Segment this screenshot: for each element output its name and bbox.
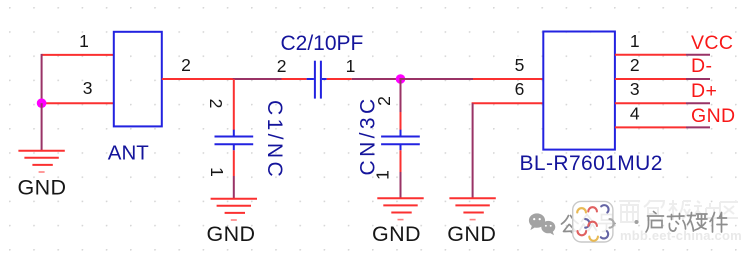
node junction at C3 tap	[396, 74, 406, 84]
svg-text:GND: GND	[372, 222, 421, 246]
ground symbol GND4	[449, 198, 495, 219]
svg-text:1: 1	[207, 167, 227, 177]
svg-text:3: 3	[630, 79, 640, 99]
ground symbol GND2	[211, 199, 257, 220]
svg-text:GND: GND	[207, 222, 256, 246]
svg-text:CN/3C: CN/3C	[357, 95, 380, 175]
svg-text:C2/10PF: C2/10PF	[281, 32, 364, 55]
svg-text:1: 1	[630, 31, 640, 51]
svg-text:2: 2	[630, 55, 640, 75]
node junction at ANT net	[37, 98, 47, 108]
wire C3 top lead purple	[400, 78, 402, 112]
wire ANT pin1 net segment	[42, 54, 114, 56]
wire junction-to-ground	[41, 103, 43, 151]
wire U1 pin4 red	[615, 126, 686, 128]
capacitor C1	[215, 130, 254, 151]
wire C2 pin1 to junction red part	[327, 78, 352, 80]
watermark faint text 面包板社区	[619, 200, 738, 222]
wire U1 pin3 stub purple	[686, 102, 710, 104]
wire junction to pin5 segment (purple)	[401, 78, 474, 80]
svg-text:5: 5	[515, 55, 525, 75]
watermark text 启芯硬件	[646, 212, 727, 233]
wire ANT pin3 net segment	[42, 102, 114, 104]
capacitor C2	[307, 61, 327, 99]
wire C1 bottom lead purple	[233, 176, 235, 198]
svg-text:D+: D+	[691, 80, 717, 102]
wire U1 pin4 stub purple	[686, 126, 710, 128]
wire C2 pin1 to junction purple part	[352, 78, 401, 80]
wire ANT pin2 to C1 tap	[162, 78, 235, 80]
wire vertical pin1-to-junction	[41, 54, 43, 103]
wire U1 pin2 stub purple	[686, 78, 710, 80]
ground symbol GND1	[18, 151, 64, 172]
svg-text:2: 2	[277, 56, 287, 76]
svg-text:mbb.eet-china.com: mbb.eet-china.com	[620, 228, 742, 243]
wire C1 bottom lead red	[233, 150, 235, 176]
svg-text:2: 2	[181, 55, 191, 75]
watermark logo square	[573, 201, 614, 242]
wire mid to C2 pin2	[282, 78, 307, 80]
wire BL pin6 horizontal	[472, 102, 544, 104]
wire U1 pin1 stub purple	[686, 54, 710, 56]
svg-text:ANT: ANT	[108, 142, 149, 165]
capacitor C3	[381, 130, 420, 151]
wire C1 top lead	[233, 79, 235, 130]
watermark text 公众号	[562, 215, 616, 233]
svg-text:4: 4	[630, 103, 640, 123]
svg-text:3: 3	[83, 78, 93, 98]
watermark separator dot	[635, 220, 639, 224]
wire pin6 to ground (purple)	[472, 103, 474, 198]
wire C3 bottom lead red	[400, 150, 402, 172]
wire C3 top lead red	[400, 112, 402, 130]
wire U1 pin1 red	[615, 54, 686, 56]
wire U1 pin2 red	[615, 78, 686, 80]
svg-text:VCC: VCC	[691, 32, 733, 54]
IC U1 BL-R7601MU2 body	[543, 32, 615, 150]
wire C1 tap to mid (purple)	[233, 78, 282, 80]
svg-text:1: 1	[346, 56, 356, 76]
svg-text:GND: GND	[691, 105, 736, 127]
svg-text:C1/NC: C1/NC	[263, 100, 286, 180]
svg-text:GND: GND	[447, 222, 496, 246]
svg-text:GND: GND	[18, 176, 67, 200]
wire to BL pin 5	[473, 78, 543, 80]
svg-text:6: 6	[515, 79, 525, 99]
svg-text:BL-R7601MU2: BL-R7601MU2	[520, 152, 663, 175]
svg-text:D-: D-	[691, 55, 712, 77]
connector ANT body	[114, 32, 162, 127]
wire C3 bottom lead purple	[400, 172, 402, 198]
ground symbol GND3	[377, 198, 423, 219]
svg-text:2: 2	[206, 99, 226, 109]
watermark wechat icon	[529, 213, 555, 235]
wire U1 pin3 red	[615, 102, 686, 104]
svg-text:1: 1	[79, 31, 89, 51]
